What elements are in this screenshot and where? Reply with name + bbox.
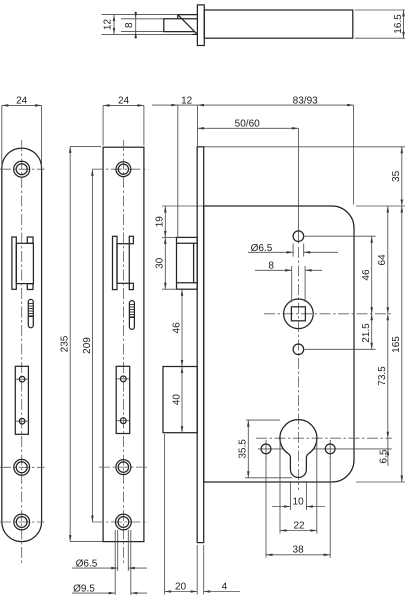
faceplate lower screw hole centerline: [99, 466, 149, 468]
extension line lower hole right (dim 21.5): [305, 348, 376, 350]
strike plate lower screw hole centerline: [0, 466, 45, 468]
dimension 12 (latch protrusion): [152, 96, 198, 107]
extension line latch bottom left (dims 30/46): [162, 288, 177, 290]
fixing holes centerline: [258, 448, 392, 450]
extension line case bottom (16.5): [355, 37, 405, 39]
faceplate latch cutout: bottom tab: [129, 283, 133, 289]
extension line case top left (dim 19): [162, 205, 203, 207]
dimension O6.5 (bottom hole inner dia): [72, 559, 147, 570]
svg-text:73.5: 73.5: [377, 366, 388, 386]
svg-text:38: 38: [293, 545, 305, 556]
strike plate latch cutout: bottom tab: [27, 284, 33, 290]
svg-text:165: 165: [391, 336, 402, 353]
svg-text:35: 35: [391, 170, 402, 182]
adjustment cutout lower hole: [15, 418, 28, 424]
spindle square hole 8mm: [291, 307, 305, 321]
dimension O9.5 (bottom hole outer dia): [72, 583, 147, 594]
faceplate top screw hole centerline: [92, 168, 148, 170]
top hole (O6.5): [293, 231, 304, 242]
dimension 165 (case height): [391, 206, 403, 482]
svg-text:209: 209: [82, 337, 93, 354]
dimension 8 (square hole): [255, 261, 322, 302]
svg-text:20: 20: [175, 582, 187, 593]
dimension 21.5 (spindle to lower hole): [361, 314, 373, 350]
svg-text:4: 4: [222, 582, 228, 593]
svg-text:10: 10: [293, 496, 305, 507]
svg-text:35.5: 35.5: [238, 439, 249, 459]
faceplate bottom hole centerline: [92, 521, 148, 523]
svg-text:50/60: 50/60: [235, 119, 260, 130]
dimension 40 (deadbolt height): [171, 367, 183, 433]
faceplate top view: [197, 5, 204, 46]
svg-text:12: 12: [103, 19, 114, 31]
dimension 16.5 (case thickness): [393, 10, 405, 38]
extension line latch head bottom: [102, 33, 195, 35]
latch bolt main view: [177, 237, 198, 289]
deadbolt main view: [163, 367, 197, 433]
dimension 209 (screw hole distance): [82, 169, 94, 522]
extension line deadbolt left (dim 20): [164, 434, 166, 595]
dimension 46 (top hole to spindle): [361, 236, 373, 314]
svg-text:6.5: 6.5: [379, 449, 390, 463]
extension line case top (16.5): [355, 9, 405, 11]
adjustment cutout lower hole (faceplate): [116, 418, 130, 424]
svg-text:46: 46: [361, 269, 372, 281]
svg-text:8: 8: [124, 22, 135, 28]
dimension 30 (latch height): [155, 237, 167, 289]
extension line latch front (dim 12): [177, 105, 179, 236]
strike plate bottom hole (O9.5 countersunk): [14, 514, 30, 530]
dimension 10 (keyway width): [272, 496, 325, 508]
lock case outline (rounded right corners): [204, 206, 354, 482]
dimension 20 (deadbolt throw): [165, 582, 198, 593]
strike plate vertical centerline: [21, 140, 23, 563]
dimension 83/93 (case depth): [198, 96, 354, 107]
dimension 73.5 (spindle to cylinder): [377, 314, 389, 438]
extension line latch top left (dims 19/30): [162, 236, 177, 238]
svg-text:16.5: 16.5: [393, 14, 404, 34]
dimension 22 (cylinder circle dia): [280, 520, 317, 532]
dimension 38 (fixing hole distance): [266, 545, 330, 557]
svg-text:46: 46: [171, 322, 182, 334]
svg-text:83/93: 83/93: [293, 96, 318, 107]
extension line case bottom right (dim 165): [356, 481, 405, 483]
faceplate bottom hole (O9.5 countersunk): [116, 514, 132, 530]
euro profile cylinder hole: [280, 420, 317, 478]
strike plate top screw hole centerline: [0, 168, 45, 170]
adjustment cutout upper hole (faceplate): [116, 376, 130, 382]
cylinder horizontal centerline: [256, 437, 392, 439]
right fixing hole: [325, 440, 335, 458]
svg-text:24: 24: [16, 96, 28, 107]
extension line cylinder top (dim 35.5): [246, 419, 280, 421]
extension lines O9.5 (bottom hole): [115, 530, 131, 595]
faceplate spring clip (serrated pin): [129, 301, 134, 330]
dimension 19 (case top to latch): [155, 206, 167, 237]
extension lines faceplate bottom (dims 20/4): [197, 545, 204, 595]
faceplate vertical centerline: [122, 140, 124, 563]
faceplate latch cutout: main opening: [117, 244, 129, 284]
strike plate lower screw hole: [14, 459, 30, 475]
extension line case back (dim 83/93): [353, 105, 355, 204]
dimension 235 (plate length): [60, 146, 103, 541]
strike plate lower adjustment cutout: [15, 366, 28, 434]
extension line case top right (dims 64/165): [356, 205, 405, 207]
strike plate bottom hole centerline: [0, 521, 45, 523]
svg-text:24: 24: [118, 96, 130, 107]
lower hole: [293, 344, 304, 355]
svg-text:30: 30: [155, 257, 166, 269]
extension line faceplate front (dims 12/83/93/50/60): [197, 105, 199, 146]
faceplate main view: [197, 147, 204, 543]
strike plate outline (rounded ends): [2, 148, 42, 541]
faceplate outline: [103, 147, 144, 541]
strike plate latch cutout: main opening: [16, 243, 33, 283]
dimension 12 (latch width, top view): [103, 15, 116, 35]
extension line top hole right (dim 46): [305, 235, 376, 237]
strike plate spring clip (serrated pin): [28, 299, 33, 327]
extension line bolt body top: [121, 18, 164, 20]
faceplate latch cutout: top tab: [129, 236, 133, 243]
latch bolt top view (body + beveled head): [164, 15, 198, 35]
spindle horizontal centerline: [264, 313, 392, 315]
faceplate latch cutout: front flap bar: [113, 236, 118, 289]
extension line latch head top: [102, 14, 178, 16]
dimension 35.5 (cylinder hole height): [238, 420, 250, 478]
strike plate latch cutout: top tab: [27, 237, 33, 243]
dimension 64 (case top to spindle): [377, 206, 389, 314]
dimension 24 (faceplate width): [103, 96, 144, 146]
follower circle: [284, 299, 314, 329]
extension lines cylinder dia (dim 22): [280, 442, 317, 534]
svg-text:19: 19: [155, 216, 166, 228]
strike plate latch cutout: front flap bar: [12, 237, 16, 289]
svg-text:8: 8: [268, 261, 274, 272]
lock case top view: [204, 10, 352, 38]
faceplate lower screw hole: [116, 460, 131, 475]
svg-text:Ø6.5: Ø6.5: [251, 243, 273, 254]
dimension 46 (latch to deadbolt): [171, 289, 183, 366]
svg-text:12: 12: [181, 96, 193, 107]
faceplate lower adjustment cutout: [116, 366, 130, 433]
lock body vertical centerline: [297, 247, 299, 490]
left fixing hole: [261, 440, 271, 458]
faceplate top screw hole: [116, 162, 131, 177]
svg-text:Ø6.5: Ø6.5: [76, 559, 98, 570]
extension line keyway bottom (dim 35.5): [245, 477, 292, 479]
svg-text:Ø9.5: Ø9.5: [73, 583, 95, 594]
dimension 4 (faceplate thickness): [204, 582, 240, 593]
svg-text:22: 22: [293, 520, 305, 531]
dimension 6.5 (cylinder to fixing holes): [379, 438, 390, 466]
svg-text:40: 40: [171, 394, 182, 406]
svg-text:64: 64: [377, 254, 388, 266]
extension line faceplate top to right (dim 35): [204, 146, 405, 148]
dimension O6.5 leader (top hole): [248, 243, 338, 257]
extension line bolt body bottom: [121, 31, 164, 33]
svg-text:21.5: 21.5: [361, 323, 372, 343]
dimension 50/60 (backset): [198, 119, 299, 244]
strike plate top screw hole: [14, 161, 30, 177]
dimension 24 (strike plate width): [2, 96, 42, 167]
adjustment cutout upper hole: [15, 376, 28, 382]
extension lines O6.5 (bottom hole): [118, 530, 129, 571]
extension lines fixing holes (dim 38): [266, 456, 330, 558]
extension lines keyway width (dim 10): [290, 481, 306, 510]
dimension 8 (bolt body width, top view): [124, 12, 137, 39]
dimension 35 (faceplate top to case top): [391, 147, 403, 206]
svg-text:235: 235: [60, 335, 71, 352]
